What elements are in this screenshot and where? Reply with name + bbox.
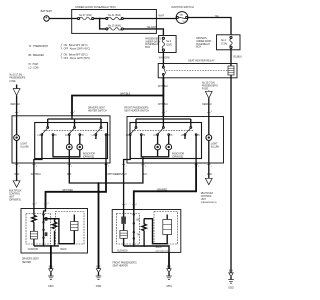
driver's switch LO3 stub <box>95 135 97 139</box>
svg-text:BACK: BACK <box>61 248 68 251</box>
passenger's switch lamp join and BLK drop <box>141 135 168 163</box>
wire right illumination, label RED/BLK <box>202 98 213 116</box>
svg-text:BOX: BOX <box>145 47 150 49</box>
svg-text:LIGHT: LIGHT <box>20 144 27 146</box>
ground G552 <box>228 271 234 290</box>
fuse No.4 (7.5A) <box>221 36 232 48</box>
svg-text:CUSHION: CUSHION <box>28 249 39 251</box>
wire fuse15 to passenger under-dash box, label YEL/GRN <box>123 27 163 35</box>
passenger's switch gang dashed line <box>132 130 194 132</box>
fuse No.15 (40A) <box>106 24 124 30</box>
battery B1 <box>41 9 53 21</box>
svg-text:G502: G502 <box>96 286 102 288</box>
wire battery to under-hood fuse box <box>49 18 78 20</box>
svg-text:YEL/BLK: YEL/BLK <box>233 56 243 58</box>
driver's seat heater box <box>21 209 88 264</box>
wire label RED (passenger's illum out) <box>207 163 212 178</box>
svg-text:PASSENGER'S: PASSENGER'S <box>10 77 26 80</box>
svg-text:FUSE: FUSE <box>202 88 209 90</box>
svg-text:No.15 (40A): No.15 (40A) <box>108 24 121 27</box>
driver's switch gang dashed line <box>44 130 104 132</box>
wire ignition to driver's under-dash fuse box, label YEL <box>188 15 231 35</box>
passenger's switch contacts LO/HI <box>126 134 200 137</box>
ground G551 <box>166 266 172 288</box>
svg-text:YEL: YEL <box>215 15 220 18</box>
wire driver's heater to ground G501 <box>50 246 52 269</box>
driver's switch feed bus <box>48 116 101 127</box>
svg-text:GRN/BLU: GRN/BLU <box>117 174 127 176</box>
passenger's under-dash fuse box <box>159 36 177 53</box>
passenger's switch HI3 drop <box>195 135 197 163</box>
svg-text:CUSHION: CUSHION <box>117 250 128 252</box>
svg-text:DRIVER'S: DRIVER'S <box>196 38 207 40</box>
wire relay output down, label WHT/BLK <box>158 78 169 96</box>
driver's under-dash fuse/relay box label <box>196 38 211 48</box>
svg-text:RED/BLK: RED/BLK <box>11 104 21 106</box>
svg-text:SEAT HEATER RELAY: SEAT HEATER RELAY <box>188 59 215 63</box>
svg-text:No.3: No.3 <box>166 41 172 43</box>
ground G501 <box>48 266 54 288</box>
fuse No.41 (50A) <box>106 14 124 20</box>
wire fuse3 to relay coil, label WHT/GRN <box>159 51 170 63</box>
svg-text:No.4: No.4 <box>221 40 227 42</box>
wire label RED (driver's illum out) <box>15 163 20 181</box>
svg-text:UNDER-DASH: UNDER-DASH <box>196 40 211 43</box>
driver's illumination light <box>14 116 29 163</box>
svg-text:BLK: BLK <box>96 266 101 268</box>
passenger's switch feed bus <box>136 117 191 127</box>
bus wire to driver's switch, label WHT/BLK <box>72 94 163 116</box>
ignition switch <box>171 5 194 24</box>
svg-text:HI: HI <box>54 135 57 137</box>
svg-text:LIGHT: LIGHT <box>211 144 218 146</box>
svg-text:OFF : Above 109°F (43°C): OFF : Above 109°F (43°C) <box>64 48 91 51</box>
terminal ticks below passenger's switch <box>122 165 213 168</box>
driver's indicator lamp 2 <box>77 135 96 158</box>
svg-text:WHT/RED: WHT/RED <box>63 190 74 192</box>
svg-text:FUSE: FUSE <box>10 81 17 83</box>
svg-text:MULTIPLEX: MULTIPLEX <box>9 190 22 192</box>
wire fuse41 to ignition switch, label WHT <box>123 15 176 19</box>
svg-text:G551: G551 <box>166 286 172 288</box>
svg-text:WHT: WHT <box>159 15 165 18</box>
fuse No.47 (15A) <box>78 14 94 20</box>
svg-text:CONTROL: CONTROL <box>201 196 213 198</box>
driver's switch LO1 to WHT/BLU terminal <box>34 135 42 163</box>
svg-text:WHT/BLK: WHT/BLK <box>158 86 169 88</box>
passenger's heater back element wiring <box>144 215 172 244</box>
passenger's thermostat block T4 <box>120 231 127 247</box>
svg-text:RED: RED <box>15 174 20 176</box>
svg-text:(ORANGE): (ORANGE) <box>83 156 95 159</box>
relay switch contact <box>163 64 166 78</box>
svg-text:(ILLUM): (ILLUM) <box>20 147 28 149</box>
passenger's breaker/thermostat contact column <box>133 210 140 247</box>
wire left illumination, label RED/BLK <box>11 96 21 116</box>
svg-text:UNIT: UNIT <box>9 196 15 198</box>
wire WHT/BLU driver's switch to heater <box>31 163 42 209</box>
passenger's switch LO3 stub <box>184 135 186 139</box>
svg-text:UNDER-HOOD FUSE/RELAY BOX: UNDER-HOOD FUSE/RELAY BOX <box>75 5 116 9</box>
driver's switch HI3 drop <box>105 135 107 163</box>
passenger's fuse connector (left illumination feed) <box>10 74 26 96</box>
front passenger's seat heater box <box>112 210 181 268</box>
svg-text:RED: RED <box>207 174 212 176</box>
legend thermostat/breaker notes <box>29 44 91 70</box>
terminal ticks below driver's switch <box>15 165 110 168</box>
svg-text:PASSENGER'S: PASSENGER'S <box>202 84 218 87</box>
svg-text:WHT/BLU: WHT/BLU <box>31 174 42 176</box>
svg-text:SEAT HEATER SWITCH: SEAT HEATER SWITCH <box>124 110 149 113</box>
svg-text:BLK: BLK <box>143 174 148 176</box>
wire fuse47 to node A <box>94 18 106 20</box>
passenger's breaker block B6 <box>121 210 126 231</box>
svg-text:LO: LO <box>65 135 68 137</box>
svg-text:RED/BLK: RED/BLK <box>202 104 212 106</box>
svg-text:LO : LOW: LO : LOW <box>29 67 40 69</box>
svg-text:INDICATOR: INDICATOR <box>83 152 96 155</box>
driver's heater bottom bus <box>34 245 59 247</box>
svg-text:(7.5A): (7.5A) <box>221 42 227 45</box>
passenger's heater bottom bus <box>124 245 169 252</box>
passenger's illumination light <box>206 117 219 164</box>
svg-text:MULTIPLEX: MULTIPLEX <box>201 193 214 195</box>
svg-text:No.15 (7.5A): No.15 (7.5A) <box>10 74 23 77</box>
node A junction <box>99 18 101 20</box>
svg-text:HEATER: HEATER <box>22 261 31 264</box>
svg-text:(PASSENGER'S): (PASSENGER'S) <box>201 201 217 204</box>
svg-text:BLK: BLK <box>167 266 172 268</box>
passenger's indicator lamp 2 <box>166 135 185 158</box>
svg-text:No.15 (7.5A): No.15 (7.5A) <box>202 81 215 84</box>
svg-text:WHT/BLK: WHT/BLK <box>120 94 131 96</box>
svg-text:T4 : THERMOSTAT: T4 : THERMOSTAT <box>29 45 49 48</box>
passenger's under-dash fuse/relay box label <box>145 38 161 49</box>
node B junction <box>163 95 165 97</box>
dashed relay actuation line <box>166 70 228 72</box>
passenger's switch pivots and blades <box>131 127 192 134</box>
svg-text:(ILLUM): (ILLUM) <box>211 147 219 149</box>
svg-text:ON : Below 93°F (34°C): ON : Below 93°F (34°C) <box>64 45 88 47</box>
svg-text:ON : Below 86°F (30°C): ON : Below 86°F (30°C) <box>64 54 88 56</box>
svg-text:CONTROL: CONTROL <box>9 193 21 195</box>
passenger's cushion heater resistor <box>142 219 146 246</box>
svg-text:HI: HI <box>81 135 84 137</box>
svg-text:HI: HI <box>170 135 173 137</box>
svg-text:No.47 (15A): No.47 (15A) <box>79 14 92 17</box>
svg-text:(20A): (20A) <box>166 43 172 46</box>
svg-text:BATTERY: BATTERY <box>41 9 53 13</box>
wire relay coil to ground G552 <box>230 78 232 273</box>
svg-text:LO: LO <box>92 135 95 137</box>
svg-text:OFF : Above 122°F (50°C): OFF : Above 122°F (50°C) <box>64 57 91 60</box>
svg-text:YEL/GRN: YEL/GRN <box>147 27 157 29</box>
svg-text:HI : HIGH: HI : HIGH <box>29 64 39 66</box>
svg-text:GRN/RED: GRN/RED <box>157 189 168 191</box>
wire fuse4 to relay, label YEL/BLK <box>231 48 242 63</box>
driver's switch lamp join and BLK drop <box>53 135 80 163</box>
relay coil <box>228 64 234 78</box>
svg-text:(US model only): (US model only) <box>156 250 170 252</box>
ground G502 <box>96 266 102 288</box>
driver's thermostat block T4 <box>30 231 37 246</box>
driver's breaker/thermostat contact column <box>43 209 48 246</box>
svg-text:WHT/GRN: WHT/GRN <box>159 58 170 60</box>
svg-text:IGNITION SWITCH: IGNITION SWITCH <box>171 5 194 9</box>
svg-text:UNIT: UNIT <box>201 199 207 201</box>
svg-text:FRONT PASSENGER'S: FRONT PASSENGER'S <box>124 106 149 109</box>
svg-text:LO: LO <box>38 135 41 137</box>
svg-text:LO: LO <box>181 135 184 137</box>
svg-text:FUSE/RELAY: FUSE/RELAY <box>196 43 210 46</box>
svg-text:HI: HI <box>107 135 110 137</box>
svg-text:DRIVER'S SEAT: DRIVER'S SEAT <box>22 258 39 261</box>
wire passenger's heater to ground G551 <box>168 252 170 268</box>
driver's heater middle resistor <box>52 219 56 246</box>
front passenger's seat heater switch box <box>124 106 223 163</box>
node C junction on BLK join <box>98 182 100 184</box>
svg-text:HEATER SWITCH: HEATER SWITCH <box>88 110 107 113</box>
svg-text:(ORANGE): (ORANGE) <box>172 156 184 159</box>
passenger's fuse connector (right illumination feed) <box>202 81 218 98</box>
svg-text:BLK: BLK <box>67 174 72 176</box>
svg-text:BOX: BOX <box>196 47 201 49</box>
driver's switch pivots and blades <box>42 127 102 134</box>
tick terminal on driver's feed <box>70 111 76 113</box>
svg-text:(DRIVER'S): (DRIVER'S) <box>9 199 21 201</box>
svg-text:BLK: BLK <box>229 271 234 273</box>
svg-text:SEAT HEATER: SEAT HEATER <box>113 265 129 268</box>
driver's indicator lamp 1 <box>66 135 72 150</box>
passenger's indicator lamp 1 <box>155 135 161 150</box>
wire node B down to passenger switch, label WHT/BLK <box>158 96 169 117</box>
under-hood fuse/relay box <box>72 5 157 33</box>
svg-text:B6 : BREAKER: B6 : BREAKER <box>29 54 45 57</box>
svg-text:No.41 (50A): No.41 (50A) <box>108 14 121 17</box>
multiplex control unit connector (passenger's) <box>201 178 217 204</box>
wire GRN/RED passenger's switch jog to heater <box>132 163 196 210</box>
driver's seat heater switch box <box>12 106 110 163</box>
wire WHT/RED driver's switch jog to heater <box>44 163 118 209</box>
driver's cushion heater element (resistor) <box>32 209 36 232</box>
svg-text:WHT/BLK: WHT/BLK <box>158 104 169 106</box>
svg-text:HI: HI <box>198 135 201 137</box>
wire GRN/BLU passenger's switch to heater <box>117 163 128 210</box>
svg-text:LO: LO <box>153 135 156 137</box>
driver's heater back element wiring <box>44 215 79 244</box>
wire BLK ground join driver+passenger switches <box>67 163 147 183</box>
wire BLK drop to ground G502 <box>98 183 100 269</box>
multiplex control unit connector (driver's) <box>9 181 22 202</box>
svg-text:G501: G501 <box>48 286 54 288</box>
wire node A down to fuse15 row <box>100 19 107 29</box>
svg-text:BLK: BLK <box>49 266 54 268</box>
svg-text:HI: HI <box>143 135 146 137</box>
driver's switch contacts LO/HI <box>38 134 110 137</box>
svg-text:FUSE/RELAY: FUSE/RELAY <box>145 43 159 46</box>
seat heater relay <box>158 59 237 78</box>
svg-text:INDICATOR: INDICATOR <box>172 152 185 155</box>
svg-text:DRIVER'S SEAT: DRIVER'S SEAT <box>88 106 105 109</box>
svg-text:LO: LO <box>126 135 129 137</box>
fuse No.3 (20A) <box>162 37 172 51</box>
passenger's switch LO1 to GRN/BLU terminal <box>124 135 131 163</box>
svg-text:G552: G552 <box>228 288 234 290</box>
driver's under-dash fuse box <box>217 35 241 50</box>
svg-text:FRONT PASSENGER'S: FRONT PASSENGER'S <box>113 261 138 264</box>
